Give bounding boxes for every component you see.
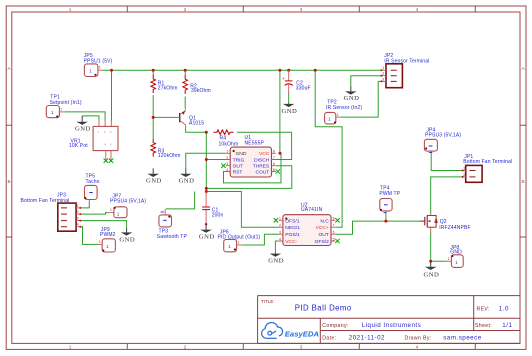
svg-text:10K Pot: 10K Pot	[69, 143, 88, 149]
connector JP3 Bottom Fan Terminal	[21, 192, 82, 231]
wire JP2 pin2 to ground	[351, 76, 382, 87]
svg-text:PWM2: PWM2	[100, 232, 116, 238]
svg-text:8: 8	[333, 217, 335, 221]
svg-text:2: 2	[382, 72, 384, 76]
test point TP4 PWM TP	[379, 186, 400, 214]
connector JP6 PID Output (Out1)	[218, 230, 261, 252]
svg-text:3: 3	[382, 77, 384, 81]
svg-text:GND: GND	[75, 126, 91, 133]
svg-text:4: 4	[77, 223, 79, 227]
ground JP2	[344, 86, 360, 102]
svg-text:TITLE:: TITLE:	[261, 299, 275, 304]
svg-text:4: 4	[226, 168, 228, 172]
potentiometer VR1	[69, 120, 118, 160]
svg-text:N.C: N.C	[320, 218, 329, 224]
op-amp U2 UA741IN	[279, 203, 336, 246]
resistor R3	[151, 139, 181, 159]
svg-text:27kOhm: 27kOhm	[158, 86, 178, 92]
connector JP2 IR Sensor Terminal	[381, 53, 430, 87]
wire TP2 to JP2 pin3	[340, 81, 381, 117]
wire base node to Q1 base	[153, 116, 177, 118]
svg-text:1: 1	[69, 345, 72, 350]
svg-text:Liquid Instruments: Liquid Instruments	[362, 322, 422, 329]
wire JP1 pin2 to Q2 drain	[431, 177, 463, 214]
svg-text:B: B	[7, 179, 10, 184]
svg-text:6: 6	[273, 162, 275, 166]
wire main vertical collector/C1 node	[205, 132, 207, 192]
svg-text:2: 2	[184, 7, 187, 12]
wire rail to R2 top	[184, 70, 186, 76]
wire 5V drop to U1 VCC	[279, 70, 281, 153]
frame row ticks right	[520, 125, 526, 237]
svg-text:GND: GND	[268, 257, 284, 264]
svg-text:Date:: Date:	[322, 336, 336, 342]
wire TP4 stub to PWM line	[385, 214, 387, 222]
svg-text:1: 1	[279, 217, 281, 221]
svg-text:GND: GND	[282, 108, 298, 115]
ground Q2 source	[424, 261, 440, 278]
wire TP5 to JP3 pin1	[80, 202, 89, 208]
connector JP7 PPSU4 (5V,1A)	[109, 193, 147, 217]
svg-text:GND: GND	[119, 237, 135, 244]
svg-text:5: 5	[273, 168, 275, 172]
title block outline	[258, 296, 520, 344]
wire JP3 pin4 to JP9	[80, 227, 98, 245]
svg-text:VCC+: VCC+	[316, 225, 329, 231]
capacitor C1	[202, 192, 223, 226]
no-connect X U2 OFS/1	[274, 218, 278, 222]
no-connect X U1 COUT	[276, 169, 280, 173]
svg-text:sam.speece: sam.speece	[443, 335, 481, 342]
svg-text:2: 2	[279, 224, 281, 228]
svg-text:3: 3	[300, 345, 303, 350]
svg-text:OUT: OUT	[233, 164, 243, 170]
wire U2 VCC- to ground	[275, 241, 278, 252]
svg-text:4: 4	[416, 7, 419, 12]
ground C1	[199, 224, 215, 240]
svg-text:Setpoint (In1): Setpoint (In1)	[50, 100, 82, 106]
wire rail to R1 top	[152, 70, 154, 76]
svg-text:7: 7	[333, 224, 335, 228]
frame column ticks top	[127, 6, 475, 12]
svg-text:Drawn By:: Drawn By:	[405, 336, 432, 342]
svg-text:1.0: 1.0	[499, 306, 509, 313]
ground JP3 pin3	[119, 228, 135, 244]
wire JP4 to JP1 pin1	[431, 153, 463, 170]
svg-text:1: 1	[463, 167, 465, 171]
capacitor C2 (polarized)	[282, 70, 311, 93]
svg-text:NE555P: NE555P	[245, 140, 265, 146]
svg-text:330uF: 330uF	[296, 86, 311, 92]
wire GND node to JP8	[431, 260, 448, 262]
resistor R1	[151, 75, 178, 93]
test point TP1 Setpoint (In1)	[46, 95, 82, 118]
no-connect X U1 OUT	[221, 164, 225, 168]
svg-text:UA741IN: UA741IN	[301, 207, 323, 213]
EasyEDA logo cloud	[262, 323, 283, 339]
transistor Q1 A1015 (PNP)	[178, 107, 205, 129]
no-connect X U2 OFS/2	[335, 239, 339, 243]
svg-text:GND: GND	[146, 178, 162, 185]
svg-text:120kOhm: 120kOhm	[158, 153, 181, 159]
svg-text:1: 1	[99, 240, 101, 244]
wire Q2 source to GND node	[430, 233, 432, 262]
svg-text:1: 1	[110, 208, 112, 212]
no-connect X U2 N.C	[335, 218, 339, 222]
svg-text:PID Ball Demo: PID Ball Demo	[295, 303, 352, 312]
svg-text:TRIG: TRIG	[233, 157, 245, 163]
svg-text:Bottom Fan Terminal: Bottom Fan Terminal	[21, 198, 70, 204]
svg-text:1/1: 1/1	[502, 322, 512, 329]
transistor Q2 IRFZ44NPBF (NMOS)	[421, 214, 471, 233]
wire JP3 pin2 to JP7	[80, 213, 109, 215]
svg-text:1: 1	[337, 113, 339, 117]
wire U1 RST to VCC loop	[224, 153, 282, 183]
wire U1 THRES to C1 node loop	[206, 166, 291, 189]
svg-text:200n: 200n	[212, 213, 224, 219]
connector JP5 PPSU1 (5V)	[84, 53, 113, 76]
svg-text:1: 1	[382, 66, 384, 70]
wire U2 OUT PWM line to Q2 gate	[335, 221, 423, 234]
wire C2 bottom to ground	[288, 93, 290, 103]
svg-text:OUT: OUT	[318, 232, 328, 238]
wire JP3 pin3 to ground	[80, 221, 126, 228]
ground U2 VCC-	[268, 252, 284, 264]
svg-text:+: +	[282, 76, 285, 81]
svg-text:Company:: Company:	[322, 323, 348, 329]
ground VR1/TP1	[75, 116, 91, 133]
frame row ticks left	[6, 125, 12, 237]
svg-text:REV:: REV:	[477, 307, 490, 313]
resistor R4	[214, 130, 239, 148]
svg-text:Bottom Fan Terminal: Bottom Fan Terminal	[463, 159, 512, 165]
svg-text:IR Sensor (In2): IR Sensor (In2)	[326, 105, 362, 111]
op-amp/timer U1 NE555P	[226, 135, 276, 177]
test point TP3 Sawtooth TP	[157, 209, 188, 240]
svg-text:EasyEDA: EasyEDA	[285, 329, 319, 338]
svg-text:1: 1	[60, 107, 62, 111]
test point TP5 Tacho	[84, 174, 99, 202]
svg-text:B: B	[521, 179, 524, 184]
svg-text:4: 4	[416, 345, 419, 350]
svg-text:1: 1	[238, 241, 240, 245]
svg-text:2: 2	[463, 173, 465, 177]
svg-text:3: 3	[300, 7, 303, 12]
svg-text:PPSU1 (5V): PPSU1 (5V)	[84, 58, 113, 64]
svg-text:VCC: VCC	[259, 151, 270, 157]
wire node to U1 TRIG	[206, 159, 226, 161]
wire C1 node to TP3 sawtooth	[166, 192, 195, 209]
svg-text:IR Sensor Terminal: IR Sensor Terminal	[384, 58, 429, 64]
wire 5V drop to U2 VCC+	[315, 70, 342, 227]
svg-text:2: 2	[184, 345, 187, 350]
svg-text:GND: GND	[236, 151, 247, 157]
svg-text:A1015: A1015	[189, 121, 204, 127]
ground R3	[146, 168, 162, 184]
ground U1 GND pin	[179, 168, 195, 184]
wire R1 bottom to Q1 base node	[152, 95, 154, 139]
svg-text:NEG/1: NEG/1	[285, 225, 300, 231]
ground C2	[282, 103, 298, 115]
svg-text:3: 3	[279, 231, 281, 235]
svg-text:PPSU3 (5V,1A): PPSU3 (5V,1A)	[425, 133, 461, 139]
svg-text:3: 3	[226, 162, 228, 166]
connector JP4 PPSU3 (5V,1A)	[424, 128, 461, 154]
svg-text:Tacho: Tacho	[86, 179, 100, 185]
svg-text:GND: GND	[344, 95, 360, 102]
svg-text:GND: GND	[450, 250, 462, 256]
svg-text:2: 2	[77, 210, 79, 214]
svg-text:39kOhm: 39kOhm	[191, 88, 211, 94]
connector JP1 Bottom Fan Terminal	[462, 154, 512, 182]
connector JP9 PWM2	[99, 227, 116, 252]
wire R2 bottom to Q1 emitter	[184, 97, 186, 108]
wire R4 to U1 DISCH loop	[237, 132, 292, 159]
svg-text:OFS/2: OFS/2	[315, 239, 329, 245]
connector JP8 GND	[447, 245, 463, 267]
svg-text:Sawtooth TP: Sawtooth TP	[157, 234, 188, 240]
svg-text:6: 6	[333, 231, 335, 235]
wire U1 GND pin to ground drop	[186, 153, 226, 168]
wire C1 node to U2 NEG input	[206, 192, 278, 228]
frame column numbers top	[69, 7, 419, 12]
svg-text:2021-11-02: 2021-11-02	[349, 335, 385, 342]
frame row letters right	[521, 66, 525, 184]
resistor R2	[183, 75, 211, 94]
frame row letters left	[7, 66, 11, 184]
svg-text:7: 7	[273, 156, 275, 160]
svg-text:Sheet:: Sheet:	[475, 323, 492, 329]
svg-text:COUT: COUT	[255, 169, 269, 175]
svg-text:3: 3	[77, 217, 79, 221]
no-connect X VR1 bottom pins	[104, 159, 114, 163]
svg-text:1: 1	[226, 150, 228, 154]
wire TP1 to VR1 wiper	[64, 112, 105, 121]
frame column numbers bottom	[69, 345, 419, 350]
svg-text:GND: GND	[199, 233, 215, 240]
wire GND to VR1 pin1	[82, 116, 99, 121]
svg-text:1: 1	[99, 66, 101, 70]
svg-text:GND: GND	[179, 178, 195, 185]
svg-text:4: 4	[279, 237, 281, 241]
test point TP2 IR Sensor (In2)	[325, 99, 363, 124]
svg-text:RST: RST	[233, 169, 243, 175]
svg-text:POS/1: POS/1	[285, 232, 300, 238]
svg-text:THRES: THRES	[253, 164, 270, 170]
svg-text:DISCH: DISCH	[254, 157, 270, 163]
frame column ticks bottom	[127, 343, 475, 349]
svg-text:1: 1	[448, 257, 450, 261]
svg-text:2: 2	[226, 156, 228, 160]
svg-text:8: 8	[273, 150, 275, 154]
svg-text:PWM TP: PWM TP	[379, 191, 400, 197]
svg-text:5: 5	[333, 237, 335, 241]
svg-text:PID Output (Out1): PID Output (Out1)	[218, 235, 261, 241]
wire Q1 collector to junction	[186, 129, 207, 132]
wire JP6 to U2 POS input	[242, 234, 278, 245]
svg-text:GND: GND	[424, 272, 440, 279]
svg-text:OFS/1: OFS/1	[285, 218, 299, 224]
wire 5V drop to VR1 pin3	[111, 70, 113, 120]
svg-text:1: 1	[69, 7, 72, 12]
wire 5V top rail	[102, 69, 381, 71]
svg-text:VCC-: VCC-	[285, 239, 297, 245]
svg-text:IRFZ44NPBF: IRFZ44NPBF	[439, 225, 471, 231]
svg-text:1: 1	[77, 204, 79, 208]
svg-text:PPSU4 (5V,1A): PPSU4 (5V,1A)	[110, 198, 146, 204]
